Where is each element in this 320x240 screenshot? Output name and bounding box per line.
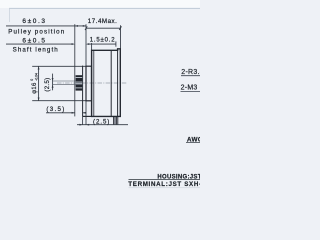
step line ext down xyxy=(82,116,84,124)
shaft top extension line xyxy=(52,80,75,82)
oblique tick left end 17.4Max xyxy=(85,26,87,30)
6±0.5 arrow at A xyxy=(72,43,75,45)
sheet border horizontal xyxy=(9,7,200,9)
svg-text:1.5±0.2: 1.5±0.2 xyxy=(90,38,116,44)
end tick 1.5±0.2 xyxy=(115,41,117,46)
svg-text:(2.5): (2.5) xyxy=(93,118,110,125)
bottom (2.5) dim + pin baseline xyxy=(77,124,128,126)
svg-text:Shaft length: Shaft length xyxy=(13,46,59,53)
phi2.5 dim line vertical xyxy=(52,74,54,91)
(3.5) dim tail right xyxy=(83,112,87,114)
svg-text:17.4Max.: 17.4Max. xyxy=(88,18,118,25)
phi16 vertical arrows xyxy=(38,66,40,69)
terminal pin 2 xyxy=(114,116,116,124)
extension line B lower to bottom dim xyxy=(85,101,87,125)
arrowheads xyxy=(38,25,90,126)
svg-text:6±0.5: 6±0.5 xyxy=(22,38,46,45)
pulley toothed body xyxy=(76,75,83,90)
label phi16 with tolerance (rotated) xyxy=(30,73,38,94)
bottom edge extension left xyxy=(83,115,92,117)
extension 1.5 right xyxy=(91,43,93,50)
svg-text:(3.5): (3.5) xyxy=(46,106,65,113)
svg-text:-0.04: -0.04 xyxy=(34,73,38,81)
motor body outline with raised rear step xyxy=(92,49,121,117)
extension line B (boss face) upper xyxy=(85,24,87,66)
svg-text:2-R3.5: 2-R3.5 xyxy=(181,69,200,76)
underline AWG note xyxy=(186,141,200,143)
rule line above TERMINAL row xyxy=(129,178,201,180)
pulley tooth slit bottom xyxy=(76,87,83,89)
phi16 dim line vertical xyxy=(38,66,40,100)
pulley hub band xyxy=(76,82,83,85)
underline 2-M3 xyxy=(181,90,201,92)
phi16 extension bottom xyxy=(32,100,86,102)
svg-text:TERMINAL:JST SXH-001: TERMINAL:JST SXH-001 xyxy=(128,181,200,188)
top margin lighter strip xyxy=(0,0,200,8)
svg-text:φ16: φ16 xyxy=(32,82,38,94)
(3.5) arrows xyxy=(72,112,75,114)
underline 2-R3 xyxy=(181,75,200,77)
1.5 arrow at B xyxy=(86,43,89,45)
svg-text:2-M3 d: 2-M3 d xyxy=(181,84,200,91)
boss xyxy=(86,66,92,101)
svg-text:Pulley position: Pulley position xyxy=(8,28,65,35)
phi2.5 arrows xyxy=(52,78,54,81)
bottom (2.5) arrows xyxy=(79,124,82,126)
body seam line 2 xyxy=(117,50,119,116)
terminal pin 3 xyxy=(115,116,117,124)
dim line 6±0.3 xyxy=(6,25,86,27)
extension line A (shaft tip) xyxy=(74,24,76,116)
sheet background xyxy=(0,0,200,200)
faint underline TERMINAL row xyxy=(129,187,201,189)
body seam line 1 xyxy=(110,50,112,116)
front plate inner line xyxy=(93,50,95,116)
terminal pin 4 xyxy=(117,116,119,124)
step line xyxy=(82,66,84,117)
(3.5) dim line xyxy=(46,112,75,114)
label (2.5) shaft dia (rotated) xyxy=(45,78,51,92)
shaft bottom extension line xyxy=(52,84,75,86)
center line xyxy=(57,82,126,84)
oblique tick right end 17.4Max xyxy=(119,26,121,30)
6±0.3 inside arrows xyxy=(75,25,78,27)
dim line 17.4Max xyxy=(86,27,120,29)
pulley hub line upper xyxy=(76,81,83,83)
pulley hub line lower xyxy=(76,83,83,85)
sheet border vertical xyxy=(8,8,10,22)
dim line 1.5±0.2 right xyxy=(88,43,117,45)
phi16 extension top xyxy=(32,65,86,67)
terminal pin 1 xyxy=(113,116,115,124)
extension 17.4 right xyxy=(120,25,122,48)
svg-text:6±0.3: 6±0.3 xyxy=(22,18,46,25)
pulley tooth slit top xyxy=(76,77,83,79)
svg-text:(2.5): (2.5) xyxy=(45,78,51,92)
dim line 6±0.5 left xyxy=(6,43,74,45)
